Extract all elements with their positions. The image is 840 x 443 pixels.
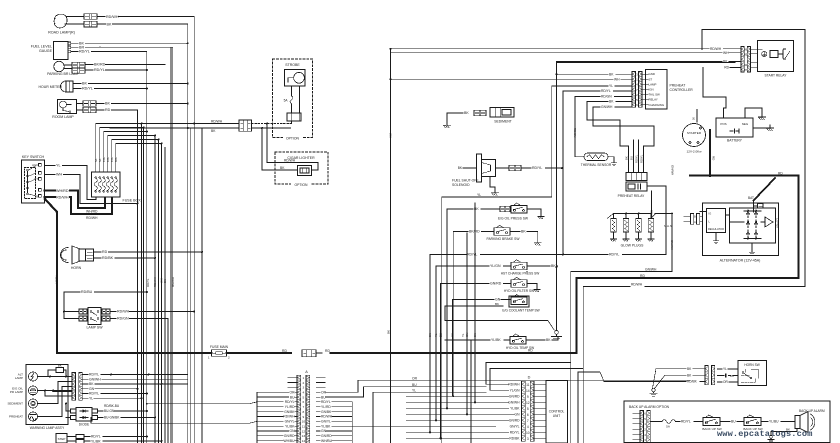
wire WH into start relay: [391, 51, 742, 55]
svg-text:YL: YL: [412, 388, 416, 392]
svg-text:HORN SW: HORN SW: [744, 363, 759, 367]
svg-text:ROOM LAMP: ROOM LAMP: [52, 115, 74, 119]
svg-text:YL/BK: YL/BK: [285, 424, 295, 428]
svg-text:YL/BK: YL/BK: [510, 406, 520, 410]
svg-text:YL: YL: [56, 164, 61, 168]
svg-text:GLOW PLUGS: GLOW PLUGS: [621, 244, 645, 248]
wire RD/WH from alternator to relay loop: [583, 283, 805, 287]
svg-text:ALTERNATOR (12V-45A): ALTERNATOR (12V-45A): [720, 259, 761, 263]
svg-text:BK: BK: [551, 264, 556, 268]
wire BK to start relay top: [557, 63, 736, 76]
wire RD/YL fuel gauge: [71, 50, 147, 54]
svg-text:HOUR METER: HOUR METER: [38, 85, 62, 89]
GLOW PLUGS: [607, 213, 654, 248]
svg-text:10: 10: [526, 431, 530, 435]
svg-text:ST: ST: [34, 177, 38, 181]
wire N.A.S label: [664, 224, 691, 228]
svg-text:GN/WH: GN/WH: [601, 105, 613, 109]
svg-text:BU-GN/BK: BU-GN/BK: [104, 416, 120, 420]
HORN: [61, 246, 86, 270]
svg-text:RD/WH: RD/WH: [321, 415, 333, 419]
svg-text:YL/BK: YL/BK: [321, 424, 331, 428]
svg-text:POS: POS: [720, 122, 726, 126]
svg-text:RD/YL: RD/YL: [532, 166, 542, 170]
svg-text:2: 2: [303, 381, 305, 385]
wires BK to ground horn: [650, 367, 705, 397]
svg-text:FUSE MAIN: FUSE MAIN: [210, 345, 229, 349]
wire RD into start relay: [703, 66, 741, 97]
svg-text:85: 85: [744, 53, 747, 57]
svg-text:9: 9: [527, 395, 529, 399]
wire BK hour meter: [73, 82, 188, 86]
svg-text:YL: YL: [477, 193, 481, 197]
svg-text:YL/GN: YL/GN: [490, 264, 501, 268]
connector D left wires: [508, 382, 520, 440]
svg-text:BK: BK: [387, 330, 391, 334]
svg-text:12V-45A: 12V-45A: [775, 218, 779, 228]
svg-text:BU-GN: BU-GN: [104, 409, 115, 413]
svg-text:BK: BK: [58, 363, 62, 367]
svg-text:13: 13: [302, 434, 306, 438]
svg-text:RD/WH: RD/WH: [153, 277, 157, 287]
svg-text:N.A.S: N.A.S: [664, 224, 672, 228]
THERMAL SENSOR: [575, 150, 617, 167]
wires into preheat controller: [100, 47, 632, 197]
svg-text:RD/YL: RD/YL: [640, 154, 644, 163]
mid bus rotated labels: [428, 333, 477, 337]
svg-text:DIODE: DIODE: [79, 422, 90, 426]
svg-text:BAT: BAT: [748, 196, 754, 200]
svg-text:RD/WH: RD/WH: [106, 15, 119, 19]
wire GN/WH warning: [83, 378, 188, 382]
BATTERY: [716, 113, 753, 143]
svg-text:GN/RD: GN/RD: [509, 394, 520, 398]
connector start relay: [741, 47, 751, 73]
svg-text:GN/YL: GN/YL: [321, 420, 331, 424]
svg-text:A: A: [305, 370, 308, 374]
wire RD/BK horn: [94, 256, 157, 260]
svg-text:RD/GN: RD/GN: [601, 95, 612, 99]
svg-text:STARTER: STARTER: [687, 131, 702, 135]
meter HOUR METER: [38, 81, 73, 92]
svg-text:RD: RD: [105, 108, 111, 112]
connector lamp sw right 2: [102, 316, 110, 321]
label YL/BK vertical: [55, 275, 59, 284]
wire RD/YL parking lamp: [85, 68, 147, 72]
svg-text:GND: GND: [649, 72, 655, 76]
wire GN/YL row10 to diode: [91, 418, 257, 424]
svg-text:CHARGING: CHARGING: [649, 103, 665, 107]
svg-text:D: D: [528, 376, 531, 380]
wire YL horizontal: [442, 193, 552, 443]
svg-text:BK: BK: [521, 230, 526, 234]
svg-text:LAMP: LAMP: [649, 82, 657, 86]
nested corner wires fuse box to bus: [96, 123, 163, 165]
alternator diode bridge: [744, 210, 761, 240]
BACK UP ALARM OPTION box (dashed): [624, 401, 830, 443]
svg-text:E/G COOLANT TEMP SW: E/G COOLANT TEMP SW: [502, 308, 539, 312]
svg-text:CIGAR LIGHTER: CIGAR LIGHTER: [287, 156, 315, 160]
svg-text:HORN: HORN: [71, 266, 82, 270]
wire RD/WH road lamp: [97, 15, 194, 19]
wire YL riser: [373, 388, 486, 443]
svg-text:12: 12: [526, 401, 530, 405]
svg-text:IGN: IGN: [649, 87, 654, 91]
svg-text:3: 3: [303, 386, 305, 390]
connector A left wires: [257, 378, 297, 443]
connector D feed wires: [407, 384, 515, 439]
svg-text:WH: WH: [389, 133, 393, 138]
wire RD/WH riser to bottom: [582, 287, 584, 369]
svg-text:START RELAY: START RELAY: [765, 74, 788, 78]
wire OR from A to horn connector: [690, 380, 693, 382]
svg-text:5A: 5A: [666, 425, 670, 429]
svg-text:BU: BU: [731, 420, 736, 424]
svg-text:RD/GN: RD/GN: [573, 128, 577, 137]
svg-text:BU: BU: [439, 333, 443, 337]
bus vertical lines left: [138, 17, 203, 443]
svg-text:GAUGE: GAUGE: [39, 49, 53, 53]
warning lamp internal wires: [38, 376, 72, 417]
svg-text:RD/YL: RD/YL: [94, 68, 105, 72]
wire RD horn: [94, 250, 204, 254]
svg-text:RD/YL: RD/YL: [510, 430, 520, 434]
alternator BAT terminal: [748, 178, 775, 212]
svg-text:BK/RD: BK/RD: [94, 63, 106, 67]
svg-text:BK: BK: [625, 156, 629, 160]
solenoid ground: [490, 177, 498, 196]
mid bus verticals: [430, 203, 475, 443]
START RELAY box: [751, 41, 793, 78]
svg-text:YL: YL: [723, 367, 727, 371]
svg-text:CONTROLLER: CONTROLLER: [670, 88, 694, 92]
svg-text:RD/WH: RD/WH: [283, 415, 295, 419]
connector lamp sw left 1: [79, 309, 87, 314]
svg-text:RD/YL: RD/YL: [146, 278, 150, 287]
svg-text:5: 5: [527, 407, 529, 411]
svg-text:GN/WH: GN/WH: [670, 240, 674, 250]
PREHEAT CONTROLLER box: [643, 70, 693, 110]
svg-text:OR: OR: [412, 376, 418, 380]
svg-text:BK: BK: [464, 111, 469, 115]
svg-text:BU: BU: [730, 374, 734, 378]
svg-text:BU: BU: [630, 156, 634, 160]
svg-text:BU: BU: [321, 395, 326, 399]
lamp ROAD LAMP(R): [48, 14, 75, 34]
wire RD thick riser right: [577, 176, 799, 354]
svg-text:RD/YL: RD/YL: [79, 50, 90, 54]
svg-text:TAIL SW: TAIL SW: [649, 93, 661, 97]
svg-text:GN/WH: GN/WH: [171, 277, 175, 287]
alternator stator: [761, 217, 779, 228]
wire RD/WH lamp sw: [110, 310, 195, 314]
svg-text:YL/BK: YL/BK: [55, 275, 59, 284]
CIGAR LIGHTER option box (dashed): [275, 152, 328, 187]
svg-text:BK: BK: [163, 279, 167, 283]
wire BK back up alarm ground: [768, 428, 797, 443]
check diode BK: [38, 363, 66, 376]
connector room lamp 2: [83, 107, 96, 112]
svg-text:87: 87: [744, 68, 747, 72]
wire YL warning: [83, 396, 143, 400]
wire RD thick main to right: [316, 349, 577, 354]
wire BU back up: [720, 420, 744, 424]
wire RD/YL hour meter: [73, 87, 147, 91]
svg-text:PREHEAT: PREHEAT: [9, 415, 23, 419]
svg-text:RD/YL: RD/YL: [89, 392, 99, 396]
svg-text:YL: YL: [434, 333, 438, 337]
wire RD thick to connector: [227, 349, 292, 353]
svg-text:OPTION: OPTION: [286, 137, 300, 141]
wire WH bus vertical x390: [387, 49, 393, 443]
watermark www.epcatalogs.com: [717, 429, 813, 439]
wire GN warning: [83, 387, 139, 391]
svg-text:BU: BU: [290, 395, 295, 399]
connector parking lamp 2: [72, 68, 85, 73]
wire RD/WH into start relay: [390, 47, 742, 51]
BACK UP ALARM speaker: [795, 409, 825, 433]
connector A: [297, 370, 310, 443]
wire BK/RD label col: [671, 156, 716, 175]
svg-text:LAMP: LAMP: [15, 376, 23, 380]
svg-text:FUSE BOX: FUSE BOX: [123, 199, 142, 203]
wire RD/YL row6 to bus: [146, 402, 257, 405]
connector parking lamp 1: [72, 62, 85, 67]
svg-text:WH: WH: [614, 78, 620, 82]
svg-text:GN/BK: GN/BK: [321, 410, 332, 414]
wire BK jog to start relay: [556, 62, 558, 75]
connector horn: [86, 249, 94, 261]
svg-text:RD/BK: RD/BK: [687, 380, 698, 384]
svg-text:THERMAL SENSOR: THERMAL SENSOR: [581, 163, 612, 167]
wires connector to horn sw: [718, 367, 739, 384]
svg-text:KEY SWITCH: KEY SWITCH: [22, 155, 45, 159]
svg-text:4: 4: [303, 391, 305, 395]
svg-text:RD/BK-BU: RD/BK-BU: [104, 404, 120, 408]
svg-text:GN/YL: GN/YL: [510, 424, 520, 428]
main ground point: [552, 74, 562, 340]
svg-text:REGULATOR: REGULATOR: [708, 227, 724, 231]
svg-text:HYD OIL TEMP SW: HYD OIL TEMP SW: [506, 346, 534, 350]
label WH/RD below: [86, 210, 98, 214]
svg-text:GN: GN: [290, 429, 296, 433]
wires connector to strobe/cigar: [252, 121, 298, 170]
svg-text:RD/WH: RD/WH: [117, 310, 130, 314]
svg-text:OR: OR: [290, 390, 296, 394]
svg-text:RD/BK: RD/BK: [509, 436, 520, 440]
SEDIMENT sensor: [447, 108, 514, 124]
svg-text:BK: BK: [107, 22, 112, 26]
STEP lamp: [56, 434, 163, 443]
svg-text:GN/BK: GN/BK: [284, 410, 295, 414]
svg-text:ST: ST: [649, 77, 653, 81]
PREHEAT RELAY: [618, 173, 647, 198]
svg-text:8: 8: [303, 410, 305, 414]
connector road lamp RD/WH: [84, 14, 97, 20]
wire RD/BK to horn sw: [578, 372, 705, 443]
battery NEG ground wires: [745, 108, 774, 131]
svg-text:NEG: NEG: [742, 122, 749, 126]
wire GN/WH glow riser: [571, 213, 674, 363]
HORN SW box: [738, 361, 767, 386]
svg-text:WH/BU: WH/BU: [284, 439, 296, 443]
svg-text:YL/GN: YL/GN: [510, 388, 521, 392]
svg-text:UNIT: UNIT: [553, 414, 560, 418]
svg-text:14: 14: [526, 389, 530, 393]
svg-text:3: 3: [527, 437, 529, 441]
fuse 5A back up: [650, 420, 680, 429]
svg-text:12: 12: [302, 429, 306, 433]
svg-text:RELAY: RELAY: [649, 98, 658, 102]
svg-text:STEP: STEP: [58, 437, 66, 441]
wire BK fuel gauge: [71, 42, 189, 46]
svg-text:YL/BK: YL/BK: [491, 338, 501, 342]
FUSE BOX: [92, 172, 142, 203]
svg-text:5: 5: [303, 395, 305, 399]
STROBE option box (dashed): [273, 59, 313, 141]
preheat relay wires up: [587, 120, 654, 173]
svg-text:RD/YL: RD/YL: [601, 89, 611, 93]
switch KEY SWITCH: [22, 155, 45, 203]
ground sediment: [444, 113, 451, 128]
svg-text:BACK UP ALARM OPTION: BACK UP ALARM OPTION: [629, 405, 670, 409]
svg-text:RD: RD: [778, 171, 783, 175]
label RD/WH below: [86, 216, 98, 220]
wire RD room lamp: [96, 108, 138, 112]
switch BACK UP SW 1: [702, 415, 721, 431]
svg-text:YL/BU: YL/BU: [769, 420, 779, 424]
svg-text:GN/YL: GN/YL: [285, 420, 295, 424]
wire RD/BU: [63, 290, 148, 318]
svg-text:BK: BK: [495, 302, 499, 306]
connector lamp sw left 2: [79, 316, 87, 321]
svg-text:86: 86: [744, 47, 747, 51]
svg-text:RD/YL: RD/YL: [91, 435, 101, 439]
wire GN/WH riser left: [526, 271, 528, 273]
svg-text:FUEL LEVEL: FUEL LEVEL: [31, 45, 52, 49]
svg-text:RD/WH: RD/WH: [631, 283, 643, 287]
FUEL SHUT-OFF SOLENOID: [452, 154, 496, 187]
svg-text:GN/WH: GN/WH: [671, 165, 675, 175]
svg-text:GN/WH: GN/WH: [645, 268, 657, 272]
svg-text:RD/BK: RD/BK: [102, 256, 114, 260]
alternator inner box: [726, 208, 776, 255]
svg-text:RD/YL: RD/YL: [467, 253, 477, 257]
svg-text:GN/WH: GN/WH: [508, 400, 520, 404]
wire main RD feed (thick): [57, 352, 212, 354]
switch E/G COOLANT TEMP SW: [445, 295, 540, 397]
wire YL key switch ACC: [45, 164, 97, 200]
svg-text:YL: YL: [609, 84, 613, 88]
svg-text:GN: GN: [515, 412, 521, 416]
battery POS wire to start relay RD: [724, 97, 727, 113]
alternator connector pins: [684, 214, 703, 225]
svg-text:RD: RD: [451, 333, 455, 337]
svg-text:BU: BU: [412, 383, 417, 387]
svg-text:WH/RD: WH/RD: [56, 189, 69, 193]
svg-text:WH/BU: WH/BU: [321, 439, 333, 443]
wire coolant BK to ground: [445, 306, 555, 331]
svg-text:SEDIMENT: SEDIMENT: [7, 402, 23, 406]
wire RD/YL solenoid: [496, 165, 564, 171]
svg-text:BK: BK: [105, 102, 110, 106]
svg-text:RD/YL: RD/YL: [635, 154, 639, 163]
svg-text:PR LAMP: PR LAMP: [10, 390, 23, 394]
svg-text:4: 4: [527, 425, 529, 429]
svg-text:14: 14: [302, 439, 306, 443]
wire RD/YL 2 warning: [83, 392, 148, 396]
wire GN/WH label and path to D: [526, 271, 528, 273]
wire RD/YL long: [430, 186, 666, 257]
svg-text:GN: GN: [89, 387, 95, 391]
svg-text:BATTERY: BATTERY: [727, 139, 743, 143]
svg-text:RD/WH: RD/WH: [211, 120, 223, 124]
svg-text:WH/RD: WH/RD: [86, 210, 98, 214]
svg-text:RD/BU: RD/BU: [81, 290, 93, 294]
lamp ROOM LAMP: [52, 100, 83, 119]
svg-text:RD/WH: RD/WH: [710, 47, 722, 51]
ALTERNATOR box: [703, 203, 779, 263]
WARNING LAMP ASSY box: [26, 365, 68, 431]
wire BK room lamp: [96, 102, 188, 106]
gauge FUEL LEVEL GAUGE: [31, 42, 71, 60]
diode wires: [65, 403, 156, 420]
svg-text:GN/WH: GN/WH: [89, 378, 101, 382]
svg-text:E/G OIL PRESS SW: E/G OIL PRESS SW: [498, 217, 529, 221]
svg-text:GN/RD: GN/RD: [490, 282, 502, 286]
lamp E/G OIL PR: [10, 386, 38, 395]
svg-text:GN: GN: [465, 333, 469, 337]
svg-text:RD/YL: RD/YL: [89, 373, 99, 377]
bus rotated labels: [146, 277, 175, 287]
switch PARKING BRAKE SW: [453, 225, 541, 396]
corner wires D11 D14: [486, 363, 583, 443]
svg-text:IG: IG: [709, 212, 712, 216]
connector warning lamp strip: [72, 373, 82, 401]
svg-text:RD: RD: [282, 349, 287, 353]
connector lamp sw right 1: [102, 309, 110, 314]
connector road lamp BK: [84, 21, 97, 27]
svg-text:YL/RD: YL/RD: [321, 405, 331, 409]
svg-text:SEDIMENT: SEDIMENT: [494, 120, 512, 124]
connector horn sw: [705, 366, 715, 385]
REGULATOR: [700, 209, 726, 244]
svg-text:HST CHARGE PRESS SW: HST CHARGE PRESS SW: [501, 272, 540, 276]
svg-text:BK: BK: [89, 382, 94, 386]
starter terminal 50 wire: [691, 109, 697, 122]
svg-text:B: B: [694, 215, 696, 219]
STARTER motor: [683, 124, 706, 154]
svg-text:LAMP SW: LAMP SW: [86, 326, 103, 330]
svg-text:BK: BK: [82, 82, 87, 86]
svg-text:OPTION: OPTION: [295, 183, 309, 187]
svg-text:OR: OR: [723, 380, 728, 384]
svg-text:PREHEAT RELAY: PREHEAT RELAY: [618, 194, 646, 198]
svg-text:7: 7: [527, 419, 529, 423]
svg-text:BK: BK: [428, 333, 432, 337]
svg-text:WARNING LAMP ASS'Y: WARNING LAMP ASS'Y: [30, 426, 65, 430]
svg-text:BK: BK: [473, 333, 477, 337]
svg-text:YL/BR: YL/BR: [91, 439, 101, 443]
svg-text:6: 6: [303, 400, 305, 404]
svg-text:YL: YL: [89, 396, 93, 400]
wire RD/GN riser label: [573, 128, 577, 137]
wire YL/BU back up: [761, 420, 795, 424]
svg-text:SOLENOID: SOLENOID: [452, 183, 470, 187]
switch E/G OIL PRESS SW: [447, 203, 544, 409]
wire RD/YL preheat relay down: [650, 191, 656, 219]
svg-text:12V-2.0Kw: 12V-2.0Kw: [687, 150, 703, 154]
